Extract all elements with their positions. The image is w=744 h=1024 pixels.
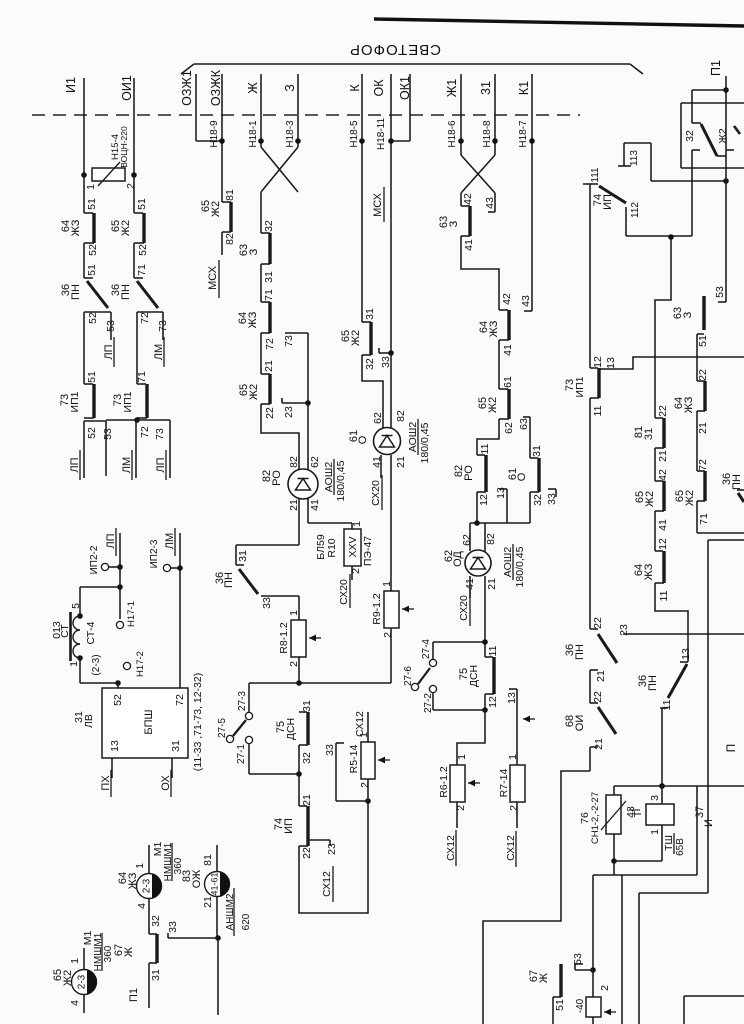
- svg-text:111: 111: [590, 167, 601, 183]
- svg-text:Н17-2: Н17-2: [135, 651, 146, 677]
- svg-text:П1: П1: [709, 60, 723, 76]
- svg-text:12: 12: [657, 538, 669, 550]
- svg-text:61: 61: [502, 376, 514, 388]
- svg-text:81: 81: [224, 189, 236, 201]
- svg-text:2: 2: [382, 632, 394, 638]
- svg-text:(2-3): (2-3): [91, 654, 102, 675]
- svg-text:СХ12: СХ12: [321, 871, 333, 897]
- svg-text:12: 12: [478, 494, 490, 506]
- svg-text:Ж2: Ж2: [210, 201, 222, 217]
- svg-text:32: 32: [364, 358, 376, 370]
- svg-text:33: 33: [324, 744, 336, 756]
- svg-text:51: 51: [136, 198, 148, 210]
- svg-text:22: 22: [592, 617, 604, 629]
- svg-text:ИП: ИП: [602, 194, 614, 210]
- svg-text:ЛМ: ЛМ: [153, 344, 165, 360]
- svg-text:52: 52: [86, 427, 98, 439]
- svg-text:21: 21: [301, 794, 313, 806]
- svg-text:ЛП: ЛП: [103, 344, 115, 359]
- svg-text:2: 2: [288, 661, 300, 667]
- svg-text:АОШ2: АОШ2: [323, 462, 335, 493]
- svg-text:2: 2: [599, 985, 611, 991]
- svg-text:1: 1: [351, 521, 363, 527]
- svg-text:82: 82: [395, 410, 407, 422]
- svg-text:21: 21: [593, 738, 605, 750]
- svg-text:СХ12: СХ12: [505, 835, 517, 861]
- svg-text:ОЖ: ОЖ: [191, 870, 203, 888]
- svg-text:52: 52: [87, 312, 99, 324]
- svg-text:Ж2: Ж2: [487, 397, 499, 413]
- svg-text:О: О: [516, 472, 528, 481]
- svg-text:13: 13: [495, 487, 507, 499]
- svg-text:1: 1: [85, 184, 97, 190]
- svg-text:Т: Т: [632, 810, 644, 817]
- svg-text:Н18-8: Н18-8: [482, 120, 493, 148]
- svg-text:2: 2: [359, 782, 371, 788]
- svg-text:21: 21: [202, 896, 214, 908]
- svg-text:ИП2-2: ИП2-2: [89, 545, 100, 574]
- svg-text:27-4: 27-4: [421, 639, 432, 659]
- svg-text:Н18-1: Н18-1: [248, 120, 259, 148]
- svg-text:1: 1: [288, 610, 300, 616]
- svg-text:ПН: ПН: [120, 284, 132, 300]
- svg-text:Ж1: Ж1: [445, 79, 459, 98]
- svg-text:R7-14: R7-14: [498, 769, 510, 798]
- svg-text:Ж2: Ж2: [248, 384, 260, 400]
- svg-text:R5-14: R5-14: [348, 745, 360, 774]
- svg-text:13: 13: [680, 648, 692, 660]
- svg-text:1: 1: [68, 661, 80, 667]
- svg-text:РО: РО: [463, 465, 475, 481]
- svg-text:113: 113: [629, 150, 640, 166]
- svg-text:21: 21: [395, 456, 407, 468]
- svg-text:ЛП: ЛП: [105, 533, 117, 548]
- svg-text:21: 21: [595, 670, 607, 682]
- svg-text:ОЗЖК: ОЗЖК: [209, 69, 223, 106]
- svg-text:СТ-4: СТ-4: [85, 621, 97, 644]
- svg-text:11: 11: [487, 645, 499, 656]
- svg-text:33: 33: [546, 493, 558, 505]
- svg-text:ИП1: ИП1: [574, 376, 586, 397]
- svg-text:R8-1.2: R8-1.2: [278, 622, 290, 654]
- svg-text:ДСН: ДСН: [468, 665, 480, 687]
- svg-text:-40: -40: [575, 998, 586, 1013]
- svg-text:ЛМ: ЛМ: [121, 457, 133, 473]
- svg-text:53: 53: [714, 286, 726, 298]
- svg-text:К1: К1: [517, 81, 531, 95]
- svg-text:41: 41: [502, 344, 514, 356]
- svg-text:52: 52: [87, 244, 99, 256]
- svg-text:ОХ: ОХ: [160, 775, 172, 791]
- svg-text:ОЗЖ1: ОЗЖ1: [180, 70, 194, 106]
- svg-text:11: 11: [479, 443, 491, 454]
- svg-text:4: 4: [136, 903, 148, 909]
- svg-text:ДСН: ДСН: [285, 718, 297, 740]
- svg-text:31: 31: [643, 428, 655, 440]
- svg-text:З: З: [448, 220, 460, 227]
- svg-text:42: 42: [462, 193, 474, 205]
- svg-text:Ж2: Ж2: [717, 128, 729, 144]
- svg-text:63: 63: [518, 418, 530, 430]
- svg-text:13: 13: [109, 740, 121, 752]
- svg-text:ТШ: ТШ: [663, 835, 675, 851]
- svg-text:51: 51: [697, 335, 709, 347]
- svg-text:11: 11: [658, 590, 670, 601]
- svg-text:ОК: ОК: [372, 79, 386, 97]
- svg-text:1: 1: [69, 958, 81, 964]
- svg-text:2-3: 2-3: [77, 974, 88, 989]
- svg-text:31: 31: [150, 969, 162, 981]
- svg-text:62: 62: [309, 456, 321, 468]
- svg-text:ПН: ПН: [731, 474, 743, 490]
- svg-text:21: 21: [486, 578, 498, 590]
- svg-text:ЖЗ: ЖЗ: [247, 311, 259, 328]
- svg-text:21: 21: [263, 360, 275, 372]
- svg-text:ИП2-3: ИП2-3: [149, 539, 160, 568]
- svg-text:41: 41: [657, 519, 669, 531]
- svg-text:ПН: ПН: [223, 572, 235, 588]
- svg-text:Ж: Ж: [538, 973, 550, 983]
- svg-text:62: 62: [372, 412, 384, 424]
- svg-text:Ж: Ж: [246, 82, 260, 94]
- svg-text:72: 72: [697, 459, 709, 471]
- svg-text:180/0,45: 180/0,45: [419, 422, 431, 463]
- svg-text:R10: R10: [326, 538, 338, 557]
- svg-text:Н18-3: Н18-3: [285, 120, 296, 148]
- svg-text:ЛВ: ЛВ: [83, 714, 95, 728]
- svg-text:ПН: ПН: [70, 284, 82, 300]
- svg-text:ОД: ОД: [452, 551, 464, 567]
- svg-text:31: 31: [301, 700, 313, 712]
- svg-text:33: 33: [380, 356, 392, 368]
- svg-text:27-5: 27-5: [217, 718, 228, 738]
- svg-text:22: 22: [264, 407, 276, 419]
- svg-text:Н18-9: Н18-9: [209, 120, 220, 148]
- svg-text:42: 42: [657, 469, 669, 481]
- svg-text:71: 71: [263, 289, 275, 301]
- svg-text:ПН: ПН: [647, 675, 659, 691]
- svg-text:51: 51: [86, 371, 98, 383]
- svg-text:43: 43: [520, 295, 532, 307]
- svg-text:Н18-7: Н18-7: [518, 120, 529, 148]
- svg-text:620: 620: [241, 913, 252, 930]
- svg-text:ЖЗ: ЖЗ: [683, 396, 695, 413]
- svg-text:АОШ2: АОШ2: [502, 547, 514, 578]
- svg-text:И1: И1: [64, 77, 78, 93]
- svg-text:Н18-6: Н18-6: [447, 120, 458, 148]
- svg-text:71: 71: [698, 513, 710, 525]
- svg-text:(11-33 ,71-73, 12-32): (11-33 ,71-73, 12-32): [192, 673, 204, 771]
- svg-text:82: 82: [485, 533, 497, 545]
- svg-text:Н18-5: Н18-5: [349, 120, 360, 148]
- svg-text:32: 32: [532, 494, 544, 506]
- svg-text:АОШ2: АОШ2: [407, 422, 419, 453]
- svg-text:ПН: ПН: [574, 644, 586, 660]
- svg-text:ЖЗ: ЖЗ: [488, 320, 500, 337]
- svg-text:ОИ: ОИ: [574, 715, 586, 731]
- svg-text:Ж2: Ж2: [120, 220, 132, 236]
- svg-text:21: 21: [288, 499, 300, 511]
- svg-text:СН1-2,-2-27: СН1-2,-2-27: [590, 792, 601, 844]
- svg-text:3: 3: [649, 795, 661, 801]
- svg-text:22: 22: [657, 405, 669, 417]
- svg-text:ЖЗ: ЖЗ: [70, 219, 82, 236]
- svg-text:22: 22: [697, 369, 709, 381]
- svg-text:32: 32: [301, 752, 313, 764]
- svg-text:ВОЦН-220: ВОЦН-220: [119, 126, 129, 168]
- svg-text:112: 112: [630, 202, 641, 218]
- svg-text:180/0,45: 180/0,45: [335, 460, 347, 501]
- svg-text:72: 72: [264, 338, 276, 350]
- svg-text:СХ20: СХ20: [458, 595, 470, 621]
- svg-text:Ж: Ж: [123, 947, 135, 957]
- svg-text:51: 51: [86, 198, 98, 210]
- svg-text:27-6: 27-6: [403, 666, 414, 686]
- svg-text:32: 32: [263, 220, 275, 232]
- svg-text:СХ20: СХ20: [338, 579, 350, 605]
- svg-text:1: 1: [456, 754, 468, 760]
- svg-text:ПХ: ПХ: [100, 775, 112, 791]
- svg-text:МСХ: МСХ: [207, 265, 219, 289]
- svg-text:З: З: [248, 248, 260, 255]
- svg-text:1: 1: [507, 754, 519, 760]
- svg-text:ИП1: ИП1: [69, 391, 81, 412]
- svg-text:72: 72: [174, 694, 186, 706]
- svg-text:32: 32: [684, 130, 696, 142]
- svg-text:27-1: 27-1: [236, 744, 247, 764]
- svg-text:31: 31: [237, 550, 249, 562]
- svg-text:71: 71: [136, 371, 148, 383]
- svg-text:И: И: [703, 819, 715, 827]
- svg-text:13: 13: [605, 357, 617, 369]
- svg-text:ИП1: ИП1: [122, 391, 134, 412]
- svg-text:XXV: XXV: [347, 536, 359, 557]
- svg-text:1: 1: [134, 863, 146, 869]
- svg-text:З: З: [682, 311, 694, 318]
- svg-text:81: 81: [202, 854, 214, 866]
- svg-text:33: 33: [167, 921, 179, 933]
- svg-text:О: О: [357, 435, 369, 444]
- svg-text:ЛП: ЛП: [155, 457, 167, 472]
- svg-text:Ж2: Ж2: [684, 490, 696, 506]
- svg-text:СТ: СТ: [59, 624, 71, 638]
- svg-text:2: 2: [508, 805, 520, 811]
- svg-text:32: 32: [150, 915, 162, 927]
- svg-text:52: 52: [112, 694, 124, 706]
- svg-text:СХ12: СХ12: [445, 835, 457, 861]
- svg-text:72: 72: [139, 312, 151, 324]
- svg-text:41: 41: [463, 239, 475, 251]
- svg-text:43: 43: [484, 197, 496, 209]
- svg-text:К: К: [348, 84, 362, 92]
- svg-text:62: 62: [503, 422, 515, 434]
- svg-text:R9-1.2: R9-1.2: [371, 593, 383, 625]
- svg-text:П1: П1: [128, 988, 140, 1002]
- svg-text:Н18-11: Н18-11: [376, 118, 387, 150]
- svg-text:53: 53: [102, 428, 114, 440]
- svg-text:11: 11: [592, 405, 604, 416]
- svg-text:ИП: ИП: [283, 818, 295, 834]
- svg-text:31: 31: [531, 445, 543, 457]
- svg-text:73: 73: [283, 335, 295, 347]
- svg-text:71: 71: [136, 264, 148, 276]
- svg-text:Ж2: Ж2: [644, 491, 656, 507]
- svg-text:1: 1: [649, 829, 661, 835]
- svg-text:21: 21: [697, 422, 709, 434]
- svg-text:51: 51: [86, 264, 98, 276]
- svg-text:53: 53: [572, 953, 584, 965]
- svg-text:БПШ: БПШ: [143, 709, 155, 734]
- svg-text:41-61: 41-61: [210, 872, 220, 895]
- svg-text:73: 73: [157, 320, 169, 332]
- svg-text:21: 21: [657, 450, 669, 462]
- svg-text:33: 33: [261, 597, 273, 609]
- svg-text:31: 31: [479, 81, 493, 95]
- svg-text:ЖЗ: ЖЗ: [643, 563, 655, 580]
- svg-text:ЛМ: ЛМ: [164, 533, 176, 549]
- svg-text:22: 22: [592, 691, 604, 703]
- svg-text:П: П: [724, 744, 738, 753]
- svg-text:З: З: [283, 84, 297, 92]
- svg-text:4: 4: [69, 1000, 81, 1006]
- svg-text:R6-1.2: R6-1.2: [438, 766, 450, 798]
- svg-text:СВЕТОФОР: СВЕТОФОР: [349, 41, 441, 58]
- svg-text:2-3: 2-3: [142, 878, 153, 893]
- svg-text:51: 51: [554, 999, 566, 1011]
- svg-text:52: 52: [137, 244, 149, 256]
- svg-text:31: 31: [263, 271, 275, 283]
- svg-text:13: 13: [506, 692, 518, 704]
- svg-text:МСХ: МСХ: [372, 192, 384, 216]
- svg-text:73: 73: [154, 428, 166, 440]
- svg-text:41: 41: [309, 499, 321, 511]
- svg-text:Ж2: Ж2: [350, 330, 362, 346]
- svg-text:62: 62: [461, 534, 473, 546]
- svg-text:11: 11: [661, 699, 673, 710]
- svg-text:12: 12: [487, 696, 499, 708]
- svg-text:СХ12: СХ12: [354, 711, 366, 737]
- svg-text:31: 31: [364, 308, 376, 320]
- svg-text:ОИ1: ОИ1: [120, 75, 134, 101]
- svg-text:1: 1: [381, 581, 393, 587]
- svg-text:РО: РО: [271, 470, 283, 486]
- svg-text:72: 72: [139, 426, 151, 438]
- svg-text:82: 82: [288, 456, 300, 468]
- svg-text:180/0,45: 180/0,45: [514, 546, 526, 587]
- svg-text:31: 31: [170, 740, 182, 752]
- svg-text:СХ20: СХ20: [370, 480, 382, 506]
- svg-text:42: 42: [501, 293, 513, 305]
- svg-text:ЛП: ЛП: [69, 457, 81, 472]
- svg-text:Н17-1: Н17-1: [126, 601, 137, 627]
- svg-text:53: 53: [105, 320, 117, 332]
- svg-text:23: 23: [326, 843, 338, 855]
- svg-text:37: 37: [694, 806, 706, 818]
- svg-text:12: 12: [592, 356, 604, 368]
- svg-text:82: 82: [224, 233, 236, 245]
- svg-text:27-3: 27-3: [237, 691, 248, 711]
- svg-text:ПЭ-47: ПЭ-47: [362, 536, 374, 566]
- svg-text:5: 5: [70, 603, 82, 609]
- svg-text:23: 23: [283, 406, 295, 418]
- svg-text:22: 22: [301, 847, 313, 859]
- svg-text:65В: 65В: [675, 838, 686, 856]
- svg-text:2: 2: [125, 183, 137, 189]
